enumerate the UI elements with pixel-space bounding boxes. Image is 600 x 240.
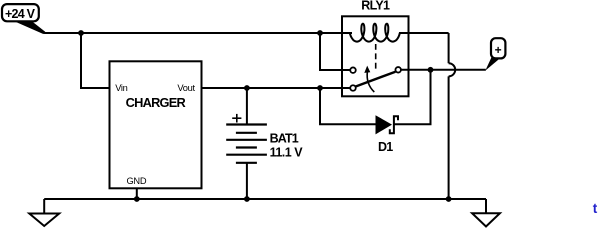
battery BAT1 (226, 125, 267, 163)
diode D1 triangle (376, 115, 393, 134)
svg-text:D1: D1 (378, 140, 393, 154)
wire coil return vertical with hop (448, 33, 450, 199)
svg-text:Vin: Vin (115, 83, 127, 93)
svg-text:+: + (495, 43, 502, 57)
node junction coil return bottom (446, 196, 452, 202)
wire switch output to + flag (401, 69, 486, 71)
node junction battery top (244, 85, 250, 91)
relay contact lower-left (common) (350, 85, 356, 91)
wire hop arc (449, 63, 456, 76)
svg-text:11.1 V: 11.1 V (270, 146, 304, 160)
svg-text:+24 V: +24 V (5, 7, 36, 21)
battery plus sign (232, 114, 241, 123)
diode D1 schottky cathode (390, 116, 398, 133)
relay coil (350, 24, 400, 42)
svg-text:BAT1: BAT1 (270, 132, 299, 146)
node junction battery bottom (244, 196, 250, 202)
wire +24V rail top (45, 32, 353, 34)
ground symbol left (29, 214, 59, 227)
wire charger GND stub (136, 189, 138, 200)
net flag +24V (2, 4, 45, 34)
relay contact right (NO) (395, 67, 401, 73)
relay RLY1 box (342, 16, 409, 96)
node junction diode/switch output (428, 67, 434, 73)
wire ground rail (44, 198, 486, 200)
node junction at x=81 on +24V rail (78, 30, 84, 36)
svg-text:Vout: Vout (177, 83, 195, 93)
wire coil exit to right (399, 32, 449, 34)
svg-text:RLY1: RLY1 (361, 0, 390, 12)
relay actuation arrow (367, 72, 374, 93)
ground symbol right (472, 213, 500, 226)
charger U1 box (110, 61, 202, 188)
node junction on rail at x=320 top (317, 30, 323, 36)
wire right ground stub (485, 199, 487, 213)
wire battery top stub (246, 88, 248, 125)
relay actuation dashed line (375, 44, 377, 70)
node junction charger GND (134, 196, 140, 202)
wire diode cathode up to switch output (393, 70, 430, 124)
wire from rail down to relay common contact (320, 33, 350, 70)
svg-text:GND: GND (127, 176, 147, 186)
wire from +24V rail down to Vin (81, 33, 109, 88)
wire left ground stub (43, 199, 45, 214)
wire from Vout rail down to diode anode (320, 88, 376, 124)
svg-text:CHARGER: CHARGER (126, 95, 186, 110)
wire Vout rail y=88 (202, 87, 354, 89)
node junction on Vout rail at x=320 (317, 85, 323, 91)
relay contact upper-left (350, 67, 356, 73)
svg-text:t: t (593, 201, 598, 216)
wire battery bottom stub (246, 163, 248, 199)
net flag + output (485, 38, 505, 70)
relay switch blade (355, 72, 395, 87)
